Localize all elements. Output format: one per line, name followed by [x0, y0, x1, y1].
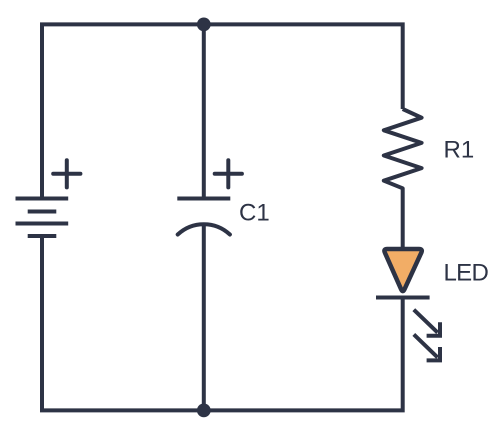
svg-text:C1: C1 [239, 200, 270, 227]
svg-text:LED: LED [444, 260, 489, 287]
svg-text:R1: R1 [444, 136, 475, 163]
